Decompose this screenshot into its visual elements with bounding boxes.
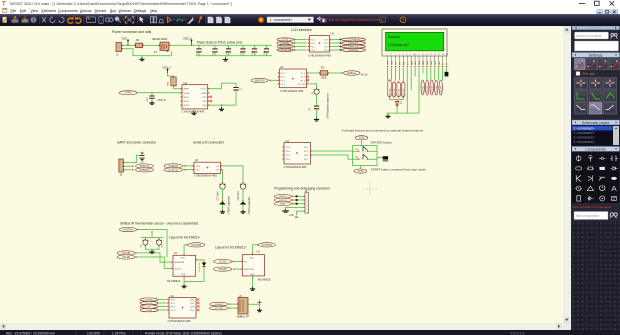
svg-text:1/23.905: 1/23.905 [87, 331, 100, 335]
svg-text:Abs: -15.075000 / 19.250000 mm: Abs: -15.075000 / 19.250000 mm [6, 331, 55, 335]
ground (C8) [240, 210, 245, 213]
svg-text:SAR bypass capacitor: SAR bypass capacitor [326, 92, 330, 118]
svg-text:VDD: VDD [181, 257, 186, 259]
wire LED return [184, 266, 204, 281]
svg-text:DB2: DB2 [419, 61, 421, 65]
svg-text:P1.7/VR: P1.7/VR [298, 83, 306, 85]
ground (U3 sensor) [250, 287, 255, 290]
wire VTRM to U2 [137, 91, 182, 93]
svg-text:SDA(B): SDA(B) [145, 298, 153, 301]
wire [158, 298, 167, 300]
connector J1 [116, 42, 122, 51]
svg-text:Settings: Settings [134, 9, 147, 13]
svg-text:View: View [31, 9, 39, 13]
svg-text:S1(B): S1(B) [357, 170, 363, 173]
svg-text:14: 14 [438, 54, 440, 56]
svg-text:CMOD capacitor: CMOD capacitor [248, 196, 251, 214]
svg-text:16: 16 [446, 54, 448, 56]
node SCB(RX) oval [164, 163, 183, 167]
svg-text:SCL(B): SCL(B) [219, 260, 227, 263]
display module Display1 [382, 29, 447, 56]
svg-text:5: 5 [403, 54, 404, 56]
svg-text:1: 1 [387, 54, 388, 56]
svg-text:VCCD: VCCD [201, 88, 207, 90]
node SCB(TX) oval [164, 167, 183, 171]
wire serial to C7 [221, 169, 224, 182]
ground (J6) [259, 304, 261, 308]
svg-text:13: 13 [434, 54, 436, 56]
svg-text:Programming and debugging conn: Programming and debugging connector [274, 186, 331, 190]
svg-text:CY8C4245AXI-483: CY8C4245AXI-483 [284, 164, 307, 168]
node LCD line oval 2 [426, 80, 429, 95]
wire [332, 42, 342, 44]
svg-text:U2: U2 [331, 31, 335, 35]
svg-text:On-board buttons and connector: On-board buttons and connectors to optio… [342, 128, 424, 132]
svg-text:INT/PDN: INT/PDN [123, 228, 133, 231]
node LCD line oval 4 [435, 80, 438, 95]
wire R10 to U2 VREF [174, 86, 182, 88]
svg-text:Components: Components [58, 9, 78, 13]
svg-text:SDA/PWM: SDA/PWM [244, 267, 254, 270]
svg-text:OPTION button: OPTION button [371, 140, 393, 144]
svg-text:R2: R2 [321, 65, 325, 69]
svg-text:VSS: VSS [250, 273, 255, 275]
svg-text:S2(B): S2(B) [358, 136, 364, 139]
svg-text:DB3: DB3 [423, 61, 425, 65]
wire [228, 307, 237, 309]
svg-text:7: 7 [410, 54, 411, 56]
svg-text:SMBus TP: SMBus TP [237, 314, 250, 318]
wire [332, 49, 342, 51]
svg-text:U2: U2 [280, 65, 284, 69]
wire [158, 305, 167, 307]
ground (SAR cap) [314, 117, 319, 120]
svg-text:R6 10K: R6 10K [403, 88, 405, 95]
svg-text:Pointer mode. [F1]=Help. Grid:: Pointer mode. [F1]=Help. Grid: 0.635000m… [145, 331, 222, 335]
wire serial to C8 [222, 165, 243, 182]
svg-text:SCL/VZ: SCL/VZ [174, 268, 182, 270]
wire J2 gnd [286, 207, 305, 209]
node S2(B) oval [355, 135, 368, 139]
capacitor C7 [222, 181, 223, 182]
svg-text:LCD2(B): LCD2(B) [431, 85, 433, 93]
wire [270, 79, 278, 81]
svg-text:Service: Service [95, 9, 107, 13]
ground (U2 power) [221, 105, 223, 107]
svg-text:C8 2.2nF: C8 2.2nF [237, 190, 240, 200]
svg-text:15: 15 [442, 54, 444, 56]
wire [158, 302, 167, 304]
svg-text:GND: GND [140, 161, 145, 163]
wire LCD data lines [387, 67, 389, 80]
svg-text:Power connector and rails: Power connector and rails [112, 30, 152, 34]
node SWDCK oval [274, 198, 292, 202]
svg-text:C7 10nF: C7 10nF [216, 190, 219, 200]
capacitor C10 [151, 92, 153, 95]
node SDA(B) oval (bottom) [140, 297, 158, 300]
ground (C7) [220, 210, 225, 213]
node LCD line oval 1 [421, 80, 424, 95]
svg-text:Ask us! target3001@ibfriedrich: Ask us! target3001@ibfriedrich.com [329, 18, 382, 22]
svg-text:First symbols of components: First symbols of components [573, 205, 612, 209]
svg-text:R5 10K: R5 10K [398, 88, 400, 95]
capacitor C14 [266, 45, 268, 55]
wire to ground [222, 204, 224, 210]
svg-text:Settings: Settings [588, 53, 602, 57]
wire J1 to R1 main rail [122, 44, 135, 46]
node INT/PDN oval (U1) [186, 244, 187, 245]
node SDA(B) oval [117, 250, 135, 254]
svg-text:LCD1(B): LCD1(B) [427, 85, 429, 93]
wire INT rail [138, 229, 167, 257]
wire C7 lower [222, 189, 224, 200]
svg-text:SCB(TX): SCB(TX) [169, 168, 179, 171]
svg-text:U3: U3 [257, 249, 261, 253]
node LCD0(B)x4 (oval) [330, 38, 331, 39]
svg-text:Pin abs: Pin abs [582, 72, 594, 76]
svg-text:TARGET 3001! V19 make - [1 Sch: TARGET 3001! V19 make - [1 Schematic C:\… [9, 2, 232, 6]
svg-text:SDA(B): SDA(B) [122, 251, 130, 254]
svg-text:1 <unnamed>: 1 <unnamed> [573, 126, 594, 130]
capacitor C3 [233, 87, 238, 90]
svg-text:Components: Components [585, 147, 606, 151]
svg-text:SCL(B): SCL(B) [215, 308, 222, 310]
wire [293, 195, 304, 197]
node SCL(B) oval (U3) [213, 259, 232, 263]
svg-text:90614 only: 90614 only [199, 260, 201, 271]
svg-text:SCB(RX): SCB(RX) [140, 168, 150, 171]
svg-text:INT/PDN: INT/PDN [192, 243, 202, 246]
svg-text:VSS: VSS [202, 105, 207, 107]
svg-text:VDD_B: VDD_B [158, 99, 166, 102]
svg-text:File: File [11, 9, 17, 13]
svg-text:1. <unnamed>: 1. <unnamed> [270, 18, 293, 22]
capacitor C8 [242, 181, 243, 182]
svg-text:SWDIO/P: SWDIO/P [254, 79, 265, 82]
node PWM(R)x (oval) [330, 42, 331, 43]
wire oval to frame [361, 139, 363, 145]
node SWDIO oval [274, 194, 292, 198]
pin X marks U2 right [307, 75, 309, 77]
svg-text:CY8C4245AXI-483: CY8C4245AXI-483 [182, 109, 205, 113]
wire U2 P1.7 to C5 [307, 83, 308, 84]
wire [293, 199, 304, 201]
capacitor C12 [228, 45, 230, 55]
ground (sensor caps) [149, 250, 154, 253]
svg-text:CY8C4245AXI-483: CY8C4245AXI-483 [280, 89, 303, 93]
node PWM(B)x (oval) [330, 49, 331, 50]
wire J1 lower return [122, 48, 172, 55]
node XRES oval [274, 201, 292, 205]
svg-text:+VD: +VD [289, 214, 294, 217]
svg-text:SDA/PWM: SDA/PWM [174, 261, 184, 264]
wire VDD_2 to R10 [168, 73, 174, 77]
svg-text:CAPSENSE: CAPSENSE [278, 48, 291, 51]
node flag (C8) [242, 200, 243, 201]
svg-text:VDD_A: VDD_A [183, 36, 192, 40]
svg-text:LCD3(B): LCD3(B) [436, 85, 438, 93]
svg-text:VDDD: VDDD [183, 105, 189, 107]
wire backlight [390, 97, 404, 100]
wire C4 to ground [316, 109, 318, 118]
svg-text:CTAVR capacitor: CTAVR capacitor [227, 196, 230, 214]
svg-text:R3 10K: R3 10K [389, 88, 391, 95]
svg-text:VREF: VREF [183, 88, 189, 90]
wire J5 tx [124, 165, 131, 167]
svg-text:U1: U1 [174, 251, 178, 255]
wire SCL to U3 [234, 260, 241, 262]
svg-text:Layout for MLX90615: Layout for MLX90615 [215, 245, 246, 249]
wire [332, 45, 342, 47]
svg-text:VDDD: VDDD [183, 101, 189, 103]
wire SDA to U1 [137, 252, 171, 261]
wire [158, 309, 167, 311]
svg-text:CY8C4245AXI-483: CY8C4245AXI-483 [194, 173, 217, 177]
svg-text:Display1: Display1 [388, 34, 401, 38]
wire ovals to U2 serial [183, 164, 193, 166]
LED D1 [395, 101, 399, 104]
power node VDD (UART) [140, 154, 145, 156]
node SCB(RX) oval (UART) [136, 167, 154, 171]
resistor R4 [392, 82, 395, 96]
wire VCCD loop to C3 [209, 83, 236, 89]
svg-text:VDD: VDD [122, 36, 128, 40]
node VTRM oval [119, 90, 137, 94]
wire R1 to T1 [143, 44, 159, 46]
node S1(B) oval [354, 169, 367, 173]
wire U2 to start button [312, 155, 353, 159]
node PWM(R) (oval) [277, 44, 293, 47]
svg-text:SMBus IR thermometer sensor -: SMBus IR thermometer sensor - only one i… [120, 221, 198, 225]
svg-text:SCL(B): SCL(B) [122, 255, 130, 258]
svg-text:SDA(B): SDA(B) [219, 268, 227, 271]
node flag (black) right of display [445, 71, 449, 76]
ground (LCD) [385, 114, 390, 117]
node CAPSENSE (oval) [277, 48, 293, 51]
svg-text:Elements: Elements [42, 9, 57, 13]
svg-text:T1: T1 [154, 50, 158, 54]
wire [228, 303, 237, 305]
wire U3 vss to ground [252, 275, 253, 276]
node DEBUG/PLUS oval [344, 70, 361, 74]
ground (J2) [282, 209, 289, 212]
svg-text:Help: Help [150, 9, 157, 13]
node SCL(B) oval [117, 254, 135, 258]
node VTRM oval (bottom) [140, 308, 158, 311]
wire SDA to U3 [234, 268, 240, 270]
svg-text:Schematic pages: Schematic pages [581, 121, 609, 125]
wire R2 to DEBUG oval [329, 72, 343, 74]
svg-text:8: 8 [414, 54, 415, 56]
svg-text:VSS: VSS [202, 101, 207, 103]
svg-text:VSS: VSS [181, 274, 186, 276]
wire T1 to decoupling rail [170, 44, 197, 46]
svg-text:VDDA: VDDA [183, 91, 189, 94]
node INT/PDN oval [119, 227, 136, 231]
svg-text:2: 2 [391, 54, 392, 56]
svg-text:U2: U2 [195, 158, 199, 162]
svg-text:Buy: Buy [110, 9, 116, 13]
svg-text:10: 10 [422, 54, 424, 56]
wire [293, 42, 307, 44]
svg-text:search in project: search in project [576, 34, 601, 38]
wire [293, 202, 304, 204]
node flag gnd (buttons) [377, 156, 383, 158]
node SDA(B) oval (U3) [213, 267, 232, 271]
ground (power section) [141, 55, 143, 57]
power node VDD (J6) [248, 302, 260, 304]
svg-text:Edit: Edit [20, 9, 26, 13]
resistor R3 [388, 80, 391, 96]
capacitor C5 [316, 88, 317, 89]
svg-text:SDA(B): SDA(B) [215, 303, 223, 306]
svg-text:DEBUG: DEBUG [347, 71, 356, 74]
wire SCL to U1 [137, 257, 171, 268]
node LCD line oval 5 [439, 80, 442, 95]
wire U2 to option button [312, 150, 353, 152]
node SCL(B) oval (J6) [210, 306, 229, 310]
node SCL(B) oval (bottom) [140, 301, 158, 304]
ground (C10) [149, 101, 154, 104]
svg-text:Place close to PSoC power pins: Place close to PSoC power pins [197, 40, 243, 44]
node SWDIO oval [251, 78, 268, 82]
svg-text:RW: RW [403, 61, 405, 64]
wire U1 VDD to INT oval [184, 254, 185, 255]
svg-text:LCD0(B): LCD0(B) [422, 85, 424, 93]
wire U2 to R2 [307, 72, 308, 73]
wire J5 rx [124, 168, 131, 170]
wire [253, 244, 258, 254]
wire C3 return [209, 90, 236, 105]
capacitor C1 [198, 45, 200, 55]
svg-text:4: 4 [399, 54, 400, 56]
wire sensor cap rail [141, 232, 164, 239]
node SDA(B) oval (J6) [210, 302, 229, 306]
svg-text:12: 12 [430, 54, 432, 56]
svg-text:SCB(TX): SCB(TX) [140, 164, 150, 167]
svg-text:3 <unnamed>: 3 <unnamed> [573, 135, 594, 139]
ground (U1) [182, 284, 187, 287]
svg-text:R4 10K: R4 10K [394, 88, 396, 95]
svg-text:LCDisplay 8x2: LCDisplay 8x2 [388, 43, 409, 47]
svg-text:2 <unnamed>: 2 <unnamed> [573, 131, 594, 135]
svg-text:IRLML6401: IRLML6401 [152, 36, 168, 40]
pin X marks U2 power right [210, 95, 212, 97]
wire J2 vdd [296, 211, 304, 215]
wire to ground [242, 204, 244, 210]
svg-text:UART and power connector: UART and power connector [117, 140, 157, 144]
node INT/PDN oval (U3 sensor) [258, 242, 275, 246]
svg-text:VDD: VDD [249, 257, 254, 259]
svg-text:DB7: DB7 [439, 61, 441, 65]
node PWM(B) (oval) [277, 41, 293, 44]
wire C8 lower [242, 189, 244, 200]
svg-text:PWM(B)x: PWM(B)x [348, 48, 359, 51]
node PWM(G)x (oval) [330, 45, 331, 46]
wire J5 to VDD [124, 155, 139, 162]
svg-text:DB0: DB0 [411, 61, 413, 65]
ground symbol (UART aux) [140, 158, 145, 161]
ground (decoupling rail) [225, 55, 227, 57]
svg-text:11: 11 [426, 54, 428, 56]
svg-text:CY8C4245AXI-483: CY8C4245AXI-483 [308, 53, 331, 57]
svg-text:R1: R1 [136, 38, 140, 42]
svg-text:VDD: VDD [392, 60, 394, 65]
wire [332, 38, 342, 40]
svg-text:Actions: Actions [80, 9, 92, 13]
pin X marks bottom U2 [197, 298, 199, 300]
wire LED to ground [386, 106, 419, 114]
svg-text:VDDD: VDDD [183, 96, 189, 98]
svg-text:Layout for MLX90614: Layout for MLX90614 [169, 235, 200, 239]
svg-text:Serial port connection: Serial port connection [193, 140, 224, 144]
node INT oval (bottom) [140, 304, 158, 307]
svg-text:V19.0.0.3: V19.0.0.3 [510, 331, 525, 335]
wire button frame [353, 145, 378, 165]
node LCD line oval 3 [430, 80, 433, 95]
resistor R5 [397, 82, 400, 96]
node flag (C7) [222, 200, 223, 201]
svg-text:DB4: DB4 [427, 61, 429, 65]
capacitor C2 [214, 45, 216, 55]
svg-text:DB1: DB1 [415, 61, 417, 65]
svg-text:find component: find component [576, 214, 599, 218]
node LCD1 (oval) [277, 37, 293, 40]
wire C10 to ground [151, 98, 153, 101]
capacitor C11 [242, 45, 244, 55]
ground (U2 vss) [193, 108, 195, 111]
svg-text:CY8C4245AXI-483: CY8C4245AXI-483 [168, 318, 191, 322]
wire decoupling ground rail [196, 54, 272, 56]
svg-text:VTRM: VTRM [146, 310, 152, 312]
resistor R6 [402, 82, 405, 96]
wire [293, 49, 307, 51]
svg-text:3: 3 [395, 54, 396, 56]
wire C5 to C4 [316, 94, 318, 105]
svg-text:Window: Window [119, 9, 132, 13]
svg-text:VSSA: VSSA [201, 91, 207, 94]
svg-text:MLX90615: MLX90615 [258, 277, 272, 281]
svg-text:6: 6 [406, 54, 407, 56]
LED D1 [196, 259, 197, 260]
capacitor C13 [254, 45, 256, 55]
wire [293, 45, 307, 47]
wire caps to ground [145, 246, 159, 250]
svg-text:DB6: DB6 [435, 61, 437, 65]
ghost crosshair cursor [363, 183, 378, 195]
svg-text:9: 9 [418, 54, 419, 56]
connector J5 [119, 159, 123, 172]
svg-text:1.35 Pins: 1.35 Pins [112, 331, 126, 335]
svg-text:LCD4(B): LCD4(B) [440, 85, 442, 93]
svg-text:PLUS: PLUS [361, 72, 368, 76]
svg-text:INT/PDN: INT/PDN [262, 243, 272, 246]
svg-text:100K: 100K [321, 76, 327, 79]
svg-text:DB5: DB5 [431, 61, 433, 65]
svg-text:START button, resumes from sto: START button, resumes from stop mode [371, 167, 426, 171]
wire [293, 38, 307, 40]
svg-text:4 <unnamed>: 4 <unnamed> [573, 139, 594, 143]
svg-text:MLX90614: MLX90614 [167, 278, 181, 282]
wire U1 vss to ground [184, 276, 185, 277]
node SCB(TX) oval (UART) [136, 163, 154, 167]
svg-text:XRES: XRES [280, 203, 286, 205]
wire [359, 165, 361, 169]
display pin row [387, 56, 389, 65]
svg-text:VSS: VSS [202, 96, 207, 98]
wire VDD decoupling top rail [196, 44, 272, 46]
svg-text:VTRM: VTRM [125, 91, 132, 94]
